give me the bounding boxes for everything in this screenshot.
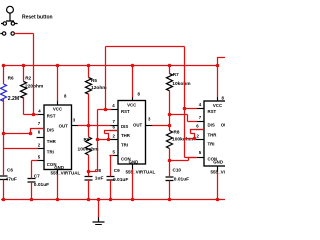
wire left timing rail	[3, 66, 5, 200]
svg-text:THR: THR	[47, 139, 57, 144]
resistor R6 100kohm (mid)	[86, 137, 92, 155]
resistor R7 10kohm	[167, 74, 173, 91]
svg-text:C9: C9	[114, 168, 120, 173]
IC2 pin 6 stub	[110, 130, 119, 132]
wire RST3 coupling	[185, 47, 198, 158]
IC3 pin 2 stub	[195, 139, 205, 141]
IC1 U1 box	[44, 105, 72, 170]
IC2 pin 7 stub	[110, 125, 118, 127]
svg-text:DIS: DIS	[208, 122, 215, 127]
svg-text:0.01uF: 0.01uF	[174, 177, 189, 183]
wire THR1 tap	[4, 129, 45, 134]
wire ground stub	[98, 200, 100, 218]
wire CON1 to C7	[32, 161, 38, 200]
svg-text:Reset button: Reset button	[22, 14, 53, 20]
svg-text:TRI: TRI	[47, 150, 54, 155]
wire VCC rail	[3, 65, 218, 67]
svg-text:GND: GND	[54, 165, 64, 170]
svg-text:THR: THR	[208, 132, 218, 137]
junction THR1 corner	[29, 132, 33, 136]
IC2 U2 box	[118, 101, 146, 165]
junction gnd-C8	[87, 198, 91, 202]
IC2 pin labels	[121, 102, 143, 164]
IC3 pin 5 stub	[195, 157, 205, 159]
junction OUT1 node	[87, 124, 91, 128]
junction OUT2 tee	[168, 124, 172, 128]
junction VCC-R6	[2, 64, 6, 68]
wire GND1	[57, 174, 59, 200]
IC1 pin stubs	[37, 101, 79, 175]
wire OUT1 to DIS2	[78, 125, 111, 127]
wire reset button to RST1	[14, 34, 33, 115]
junction THR1 rail	[2, 132, 6, 136]
svg-text:OUT: OUT	[133, 123, 143, 128]
svg-text:0.01uF: 0.01uF	[34, 182, 49, 188]
IC2 pin numbers	[112, 91, 151, 154]
capacitor C10 0.01uF	[166, 177, 174, 181]
wire TRI2 tap	[98, 131, 119, 140]
svg-text:10kohm: 10kohm	[172, 81, 190, 87]
wire GND3	[217, 172, 219, 200]
IC2 pin 1 stub	[132, 164, 134, 170]
IC2 pin 2 stub	[110, 139, 119, 141]
resistor R6 2.2M (blue)	[1, 84, 7, 101]
IC2 pin 3 stub	[146, 125, 154, 127]
wire R5 leads / OUT1 node	[88, 66, 90, 138]
wire ground rail	[1, 199, 225, 201]
IC1 pin 5 stub	[37, 160, 45, 162]
IC3 pin stubs	[195, 97, 218, 172]
junction gnd-C7	[30, 198, 34, 202]
wire CON2 to C9	[111, 156, 114, 200]
junction gnd-IC1	[56, 198, 60, 202]
svg-text:100kohm: 100kohm	[78, 146, 99, 152]
wire TRI3 tap	[185, 130, 205, 139]
svg-text:C10: C10	[173, 168, 182, 173]
IC1 pin 6 stub	[37, 137, 45, 139]
wire C10 leads	[169, 161, 171, 200]
svg-text:R5: R5	[91, 78, 97, 83]
wire node A to DIS3	[170, 115, 198, 122]
svg-text:47uF: 47uF	[6, 177, 17, 183]
svg-text:R2: R2	[25, 76, 31, 81]
svg-text:100kohm: 100kohm	[172, 137, 193, 143]
wire R6 bottom to C8	[88, 155, 90, 200]
IC1 pin 3 stub	[72, 125, 79, 127]
junction VCC-R2	[22, 64, 26, 68]
wire TRI1	[4, 148, 39, 150]
svg-text:220ohm: 220ohm	[25, 83, 43, 89]
junction TRI3 pin	[193, 137, 197, 141]
svg-text:THR: THR	[121, 133, 131, 138]
junction R8-C10	[168, 159, 172, 163]
junction VCC-IC1	[56, 64, 60, 68]
svg-text:R8: R8	[174, 130, 180, 135]
IC3 pin numbers	[196, 95, 224, 155]
svg-text:R6: R6	[8, 75, 14, 80]
svg-text:12ohm: 12ohm	[91, 85, 107, 91]
capacitor C6 47uF	[0, 176, 8, 180]
svg-text:DIS: DIS	[121, 124, 128, 129]
svg-text:0.01uF: 0.01uF	[113, 177, 128, 183]
svg-text:RST: RST	[121, 109, 130, 114]
resistor R5 12ohm	[86, 78, 92, 95]
junction R7-R8	[168, 113, 172, 117]
wire bottom node to CON3	[170, 158, 198, 161]
junction gnd-IC3	[216, 198, 220, 202]
resistor R2 220ohm	[21, 82, 27, 99]
IC1 pin 1 stub	[57, 170, 59, 175]
push button S1	[0, 6, 17, 35]
junction VCC-IC2	[131, 64, 135, 68]
svg-text:RST: RST	[208, 109, 217, 114]
svg-text:OU: OU	[221, 122, 225, 127]
svg-text:GND: GND	[213, 160, 223, 165]
svg-text:555_VIRTUAL: 555_VIRTUAL	[51, 171, 81, 176]
junction gnd-sym	[97, 198, 101, 202]
svg-text:VCC: VCC	[53, 107, 63, 112]
svg-text:TRI: TRI	[121, 143, 128, 148]
junction gnd-C6	[2, 198, 6, 202]
IC2 pin 4 stub	[110, 109, 118, 111]
junction gnd-C9	[109, 198, 113, 202]
svg-text:TRI: TRI	[208, 142, 215, 147]
svg-text:RST: RST	[47, 114, 56, 119]
IC3 pin 3 stub	[217, 97, 219, 101]
junction VCC-R7	[168, 64, 172, 68]
svg-text:VCC: VCC	[127, 102, 137, 107]
IC1 pin 4 stub	[37, 114, 45, 116]
capacitor C7 0.01uF	[28, 179, 36, 183]
svg-text:555_VIRTUAL: 555_VIRTUAL	[126, 170, 156, 175]
junction C8 node	[87, 170, 91, 174]
junction TRI2 tap	[96, 138, 100, 142]
wire VCC stub IC2	[132, 66, 134, 98]
svg-text:DIS: DIS	[47, 128, 54, 133]
IC2 pin 5 stub	[110, 155, 119, 157]
IC3 pin 8 stub	[217, 166, 219, 172]
ground symbol	[93, 217, 105, 225]
junction VCC-IC3	[216, 64, 220, 68]
junction RST1	[32, 113, 36, 117]
svg-text:C6: C6	[7, 168, 13, 173]
IC2 pin 8 stub	[132, 97, 134, 101]
wire VCC stub IC1	[57, 66, 59, 102]
svg-text:C7: C7	[34, 173, 40, 178]
IC3 U3 box	[204, 101, 230, 166]
capacitor C9 0.01uF	[107, 177, 115, 181]
svg-text:R6: R6	[84, 137, 90, 142]
resistor R8 100kohm	[167, 131, 173, 149]
capacitor C8 1uF	[85, 177, 93, 181]
wire RST2 coupling	[89, 47, 185, 172]
junction TRI2 pin	[107, 138, 111, 142]
wire R7 leads	[169, 66, 171, 115]
junction VCC-R5	[87, 64, 91, 68]
IC1 pin 7 stub	[37, 128, 45, 130]
svg-text:R7: R7	[173, 72, 179, 77]
IC3 pin 4 stub	[197, 108, 205, 110]
wire R2 leads	[24, 66, 39, 115]
junction gnd-IC2	[131, 198, 135, 202]
wire VCC stub IC3	[217, 66, 219, 98]
junction gnd-C10	[168, 198, 172, 202]
svg-text:OUT: OUT	[59, 124, 69, 129]
svg-text:VCC: VCC	[213, 103, 223, 108]
IC3 pin labels	[208, 103, 228, 165]
wire GND2	[132, 169, 134, 200]
svg-text:GND: GND	[129, 160, 139, 165]
IC3 pin 7 stub	[197, 121, 205, 123]
wire VCC feed top right	[218, 58, 226, 66]
IC1 pin 2 stub	[37, 148, 45, 150]
IC1 pin labels	[47, 107, 68, 170]
IC3 pin 6 stub	[195, 129, 205, 131]
svg-text:2.2M: 2.2M	[8, 96, 19, 102]
junction RST2 node	[104, 108, 108, 112]
junction RST3	[183, 107, 187, 111]
svg-text:1uF: 1uF	[95, 176, 104, 182]
wire OUT2 to node A	[152, 125, 170, 127]
IC1 pin numbers	[38, 94, 76, 160]
IC1 pin 8 stub	[57, 101, 59, 105]
IC2 pin stubs	[110, 97, 154, 170]
wire R8 leads	[169, 115, 171, 161]
